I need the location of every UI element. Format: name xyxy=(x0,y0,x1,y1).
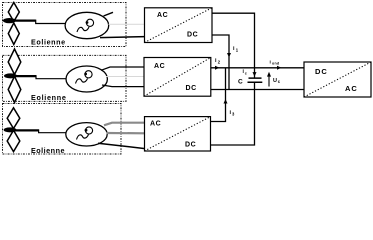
arrow ic (down into capacitor) xyxy=(253,72,257,77)
svg-text:AC: AC xyxy=(150,121,161,128)
svg-text:C: C xyxy=(238,79,243,86)
wire: converter1 + output to DC link xyxy=(212,13,255,68)
turbine hub W2 xyxy=(4,73,17,78)
generator G2 inner symbol xyxy=(76,71,93,84)
capacitor C plates xyxy=(248,78,263,82)
svg-text:Eolienne: Eolienne xyxy=(31,146,65,155)
wire: converter3 - output to DC link xyxy=(211,90,255,146)
svg-text:DC: DC xyxy=(186,85,197,92)
wire: G1 middle phase (faint) xyxy=(109,23,145,25)
wire: G3 bottom phase to converter 3 xyxy=(98,143,145,148)
svg-text:i: i xyxy=(270,60,271,66)
converter U1 AC/DC block xyxy=(145,8,213,43)
turbine shaft W1 xyxy=(14,20,36,22)
wire: negative DC bus xyxy=(211,89,304,91)
svg-text:AC: AC xyxy=(345,84,358,93)
wire: positive DC bus xyxy=(211,67,304,69)
arrow i1 (down) xyxy=(227,53,231,58)
wire: G2 bottom phase to converter 2 xyxy=(102,85,145,87)
generator G3 inner symbol xyxy=(77,127,93,140)
wire: capacitor branch from positive bus xyxy=(254,68,256,78)
svg-text:AC: AC xyxy=(157,12,168,19)
arrow i2 (right, on positive bus) xyxy=(215,66,220,70)
turbine hub W1 xyxy=(3,18,16,23)
turbine hub W3 xyxy=(4,127,17,132)
arrow i3 (up) xyxy=(224,99,228,104)
svg-text:AC: AC xyxy=(154,63,165,70)
wire: G3 top phase to converter 3 (gray) xyxy=(104,123,145,126)
wind turbine unit box 1 (dash-dot enclosure) xyxy=(3,3,127,47)
arrow iond (right, to inverter) xyxy=(277,66,282,70)
wire: converter3 + output up to positive bus xyxy=(211,68,226,122)
turbine shaft W3 xyxy=(14,129,39,131)
svg-text:U: U xyxy=(273,78,277,84)
generator G1 (oval) xyxy=(65,12,109,38)
turbine rotor blades W3 xyxy=(7,108,20,152)
generator G1 inner symbol xyxy=(77,19,94,32)
inverter U4 DC/AC block xyxy=(304,62,371,97)
svg-text:Eolienne: Eolienne xyxy=(31,93,67,102)
svg-text:DC: DC xyxy=(185,142,196,149)
wire: G2 top phase to converter 2 xyxy=(101,67,145,70)
wire: converter1 - output down to negative bus xyxy=(212,35,229,90)
wire: G1 top phase stub xyxy=(104,12,114,16)
turbine rotor blades W1 xyxy=(8,3,19,45)
wind turbine unit box 3 (dash-dot enclosure) xyxy=(3,104,122,155)
generator G2 (oval) xyxy=(66,66,107,92)
svg-text:ond: ond xyxy=(272,62,280,66)
arrow Uc (up, DC link voltage) xyxy=(268,75,270,87)
converter U2 AC/DC block xyxy=(144,58,211,97)
wind turbine unit box 2 (dash-dot enclosure) xyxy=(3,55,127,101)
converter U3 AC/DC block xyxy=(145,117,211,151)
generator G3 (oval) xyxy=(66,123,107,146)
svg-text:Eolienne: Eolienne xyxy=(31,38,66,47)
wire: G3 middle phase (gray) xyxy=(107,132,146,135)
wire: capacitor bottom to negative bus xyxy=(254,82,256,89)
svg-text:DC: DC xyxy=(315,67,328,76)
turbine shaft W2 xyxy=(14,75,36,77)
wire: G2 middle phase (faint) xyxy=(106,76,145,78)
wire: G1 bottom phase to converter 1 xyxy=(100,37,145,38)
svg-text:c: c xyxy=(245,71,247,75)
turbine rotor blades W2 xyxy=(8,49,21,103)
svg-text:DC: DC xyxy=(187,32,198,39)
